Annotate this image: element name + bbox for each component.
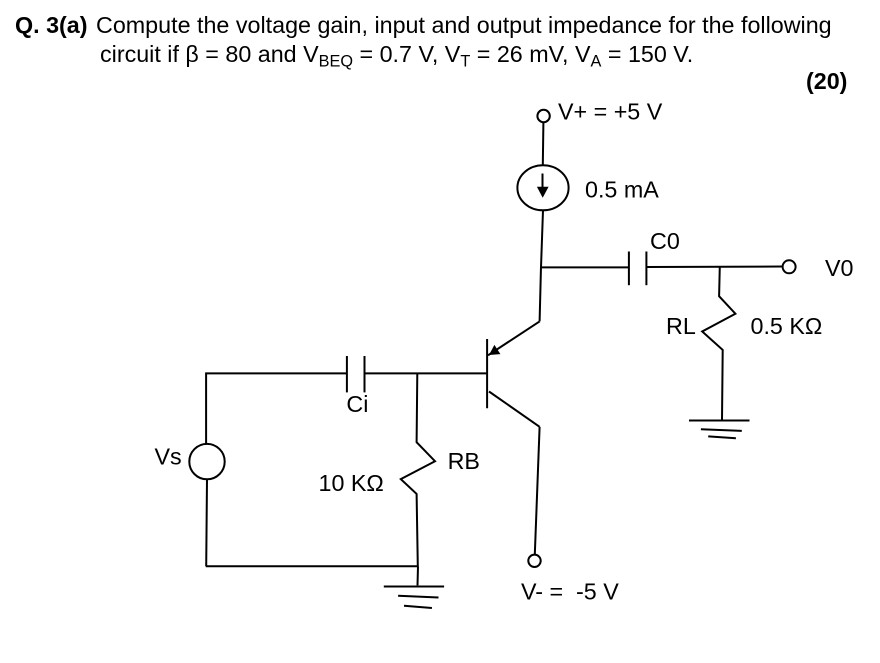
terminal V0 [783, 260, 796, 273]
capacitor Ci [347, 356, 365, 392]
label RL [666, 313, 696, 339]
svg-text:RB: RB [448, 448, 480, 474]
svg-text:C0: C0 [650, 228, 680, 254]
marks label (20) [806, 68, 847, 94]
label V0 [825, 255, 854, 281]
ground (RL) [689, 421, 750, 439]
terminal V+ [537, 110, 549, 122]
label RB [448, 448, 480, 474]
wire collector to V- terminal [535, 427, 540, 555]
svg-text:V- = -5 V: V- = -5 V [521, 578, 619, 604]
svg-text:RL: RL [666, 313, 696, 339]
svg-text:Ci: Ci [346, 391, 368, 417]
label V- = -5 V [521, 578, 619, 604]
label 10 Kohm [319, 470, 384, 496]
svg-text:10 KΩ: 10 KΩ [319, 470, 384, 496]
wire emitter to node A [540, 267, 541, 322]
wire C0 to V0 terminal [646, 266, 782, 269]
svg-text:circuit if β = 80 and VBEQ = 0: circuit if β = 80 and VBEQ = 0.7 V, VT =… [100, 41, 693, 71]
svg-text:0.5 KΩ: 0.5 KΩ [751, 313, 823, 339]
resistor RB [401, 373, 435, 566]
wire Vs to bottom rail [205, 479, 208, 566]
label V+ = +5 V [558, 99, 663, 125]
source Vs [189, 444, 224, 479]
wire left rail top (Vs to Ci) [206, 373, 347, 444]
title line 2 [100, 41, 693, 71]
svg-text:V0: V0 [825, 255, 854, 281]
transistor Q1 emitter lead with arrow [488, 321, 540, 355]
label C0 [650, 228, 680, 254]
wire bottom rail [206, 565, 418, 567]
transistor Q1 base bar [486, 339, 488, 408]
wire Ci to base [365, 372, 488, 374]
wire current source to node A [541, 210, 543, 267]
current source I1 [517, 165, 568, 210]
label Vs [155, 444, 182, 470]
svg-text:(20): (20) [806, 68, 847, 94]
label 0.5 mA [585, 177, 659, 203]
label 0.5 Kohm [751, 313, 823, 339]
terminal V- [528, 555, 540, 567]
node A wire to C0 [540, 266, 629, 268]
title line 1 [15, 12, 832, 38]
transistor Q1 collector lead [489, 392, 540, 427]
resistor RL [702, 266, 735, 420]
capacitor C0 [629, 252, 647, 286]
wire V+ to current source [542, 122, 545, 165]
svg-text:V+ = +5 V: V+ = +5 V [558, 99, 663, 125]
wire bottom rail to ground [417, 566, 420, 585]
label Ci [346, 391, 368, 417]
svg-text:Vs: Vs [155, 444, 182, 470]
ground (RB) [384, 587, 444, 609]
svg-text:0.5 mA: 0.5 mA [585, 177, 659, 203]
svg-text:Q. 3(a)Compute the voltage gai: Q. 3(a)Compute the voltage gain, input a… [15, 12, 832, 38]
